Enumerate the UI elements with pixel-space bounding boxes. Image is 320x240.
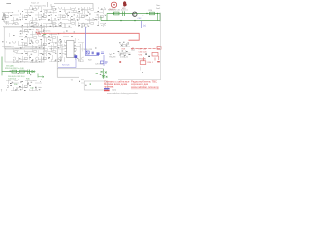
volume net (blue) vertical	[86, 27, 100, 56]
sheet border bottom	[118, 79, 161, 81]
wire top feed	[54, 4, 93, 9]
green tie at output	[103, 69, 105, 79]
svg-text:(x): (x)	[143, 25, 146, 28]
IF out marks	[120, 42, 136, 55]
AGC net wire (red)	[42, 33, 140, 40]
svg-text:VD5 Д9Б: VD5 Д9Б	[6, 66, 15, 68]
filter component specks	[10, 83, 37, 91]
resistor R32 (green)	[20, 70, 25, 73]
svg-text:R12 1k: R12 1k	[44, 31, 50, 33]
IF stage block	[84, 7, 106, 27]
tone caps (green) pair	[101, 71, 108, 78]
detector block box	[5, 49, 44, 62]
diode VD6 (green)	[32, 70, 35, 72]
antenna symbol	[2, 13, 9, 22]
svg-text:C43 50,0: C43 50,0	[8, 78, 17, 80]
svg-text:R27 120: R27 120	[139, 48, 147, 50]
watermark text (red)	[104, 79, 159, 89]
svg-text:R36: R36	[14, 84, 17, 86]
title block box	[84, 81, 108, 90]
choke L3 (green)	[114, 12, 120, 15]
coupling cap C24 (blue)	[74, 55, 77, 58]
speaker marks	[139, 67, 143, 74]
svg-text:C34 0,05: C34 0,05	[139, 51, 148, 53]
transistor VT5	[133, 12, 137, 16]
zener VD2 (blue)	[141, 21, 143, 28]
resistor R12 (red)	[36, 32, 41, 34]
flag icon	[104, 88, 110, 89]
supply net arrow (red dashed)	[131, 48, 160, 50]
bus wire	[3, 25, 62, 28]
transformer T2	[79, 79, 84, 84]
supply rail V1 (green)	[107, 13, 160, 15]
sheet border right	[160, 13, 162, 80]
AF stage parts	[42, 33, 62, 62]
header ticks	[48, 2, 56, 7]
row of parts mid-left	[1, 41, 20, 49]
oscillator block box	[4, 27, 44, 48]
junction dots	[120, 20, 121, 21]
mixed specks in green row	[10, 70, 32, 75]
svg-text:R21 5к6: R21 5к6	[62, 64, 70, 66]
capacitor C21 (green)	[123, 11, 125, 16]
power filter row parts	[6, 79, 42, 91]
svg-text:№№: №№	[112, 89, 116, 92]
svg-text:www.radiofan.ru/sxemy: www.radiofan.ru/sxemy	[131, 85, 159, 89]
svg-text:www.radiofan.ru/shemy-priemnik: www.radiofan.ru/shemy-priemnikov	[107, 93, 138, 95]
driver parts	[62, 44, 84, 62]
wire down-left	[57, 58, 79, 77]
output stage cluster (red)	[157, 47, 161, 50]
svg-text:0,5ГД-21: 0,5ГД-21	[120, 56, 129, 58]
stamp emblem 2	[123, 1, 127, 6]
rail tie wires (green)	[101, 13, 160, 21]
oscillator parts	[7, 33, 17, 41]
svg-text:C44: C44	[30, 88, 33, 90]
resistor R31 (green)	[12, 70, 17, 73]
wire (blue) down	[103, 55, 105, 66]
resistor R20 (green)	[150, 12, 155, 15]
svg-text:ГТ402Б: ГТ402Б	[139, 58, 147, 60]
bias parts labels	[141, 16, 147, 20]
relay contact marks	[119, 42, 129, 46]
svg-text:R30 1: R30 1	[148, 62, 154, 64]
decoupling tick (green)	[43, 33, 46, 35]
revision mark	[6, 2, 11, 5]
node A marks	[41, 62, 44, 65]
green arrow	[38, 76, 44, 78]
svg-text:Табл. 2г: Табл. 2г	[31, 3, 39, 5]
RF / mixer stage block	[22, 7, 84, 28]
svg-text:R24 120 C31 0,05 L5: R24 120 C31 0,05 L5	[108, 10, 129, 12]
wire stage verticals	[57, 36, 80, 62]
cap C25 (blue)	[92, 52, 94, 55]
IC U1 (DA1)	[67, 41, 75, 58]
svg-text:R31 100 R32 1к C40: R31 100 R32 1к C40	[5, 68, 24, 70]
detector parts	[13, 50, 44, 64]
small parts above driver	[63, 30, 81, 42]
antenna input block	[1, 10, 21, 25]
pot RP1 (blue)	[86, 51, 89, 54]
cap C30 (blue)	[97, 52, 100, 55]
green branch tick	[32, 72, 39, 78]
svg-text:R15: R15	[36, 29, 39, 31]
stamp logo	[111, 2, 116, 7]
ground bus wire	[57, 68, 104, 70]
speaker BA1 marks	[108, 52, 116, 58]
red node dot	[119, 61, 121, 63]
svg-text:C26 10,0: C26 10,0	[95, 64, 104, 66]
cap C27 (blue)	[101, 61, 104, 64]
battery net wire (green) left	[2, 57, 34, 72]
green wire stub	[1, 72, 3, 76]
supply rail V2 (green)	[101, 20, 160, 22]
wire (blue)	[58, 58, 76, 67]
mixer dense parts	[19, 28, 44, 49]
cap C40 (green)	[28, 70, 30, 74]
